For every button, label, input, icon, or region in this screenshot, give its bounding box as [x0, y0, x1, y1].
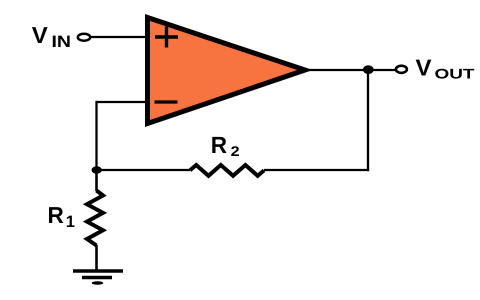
- resistor R2: [190, 165, 264, 176]
- wire node A down to R1: [95, 168, 98, 191]
- wire feedback down from node B: [367, 70, 369, 171]
- svg-text:V: V: [32, 22, 49, 48]
- wire minus input down to node A: [95, 101, 97, 170]
- wire R1 to ground: [95, 245, 98, 271]
- svg-text:OUT: OUT: [435, 66, 476, 82]
- op-amp plus pin symbol: [155, 27, 178, 48]
- label VIN: [32, 22, 71, 51]
- ground: [73, 271, 123, 285]
- label R1: [48, 202, 75, 231]
- node A junction: [92, 166, 102, 173]
- op-amp minus pin symbol: [155, 100, 178, 103]
- label VOUT: [416, 55, 476, 82]
- wire minus input horizontal: [97, 101, 147, 103]
- terminal circle VIN: [78, 34, 90, 41]
- svg-text:R: R: [211, 132, 227, 158]
- wire output: [305, 69, 395, 71]
- label R2: [211, 132, 240, 159]
- wire VIN to plus input: [91, 36, 147, 38]
- node B output junction: [363, 65, 374, 74]
- svg-text:IN: IN: [52, 33, 72, 51]
- svg-text:1: 1: [66, 213, 75, 231]
- resistor R1: [87, 191, 103, 246]
- terminal circle VOUT: [396, 66, 407, 73]
- wire feedback horizontal to R2: [264, 169, 369, 171]
- svg-text:V: V: [416, 55, 433, 81]
- svg-text:R: R: [48, 202, 65, 228]
- op-amp U1: [148, 18, 306, 124]
- wire R2 to node A: [97, 169, 191, 171]
- svg-text:2: 2: [231, 143, 240, 159]
